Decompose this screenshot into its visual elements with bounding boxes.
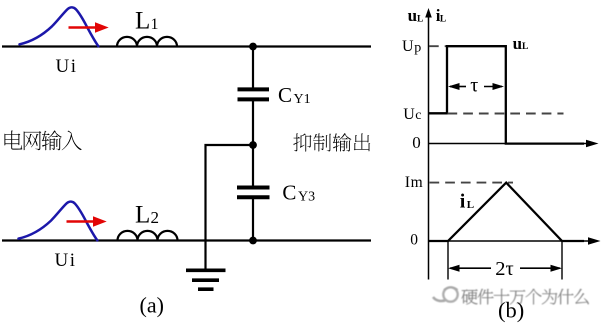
surge pulse waveform on top line (blue)	[20, 7, 99, 46]
svg-text:Y3: Y3	[298, 190, 315, 205]
watermark logo swoosh	[433, 287, 458, 301]
node: middle junction between capacitors	[249, 141, 257, 149]
wire: segment between CY1 and CY3	[252, 101, 254, 186]
ground	[186, 270, 226, 289]
label Im	[405, 174, 423, 191]
dashed line at Im level	[430, 182, 514, 184]
svg-text:u: u	[408, 6, 417, 25]
dashed line at Up level	[429, 45, 447, 47]
svg-text:m: m	[411, 174, 423, 191]
axis: top plot horizontal (0 line) with arrowhead	[429, 140, 599, 148]
axis: bottom plot horizontal (0 line) with arrowhead	[429, 237, 601, 245]
measurement line: right edge of 2tau	[561, 241, 563, 280]
svg-text:L: L	[467, 199, 474, 211]
text: 电网输入 (grid input)	[4, 130, 81, 150]
surge pulse waveform on bottom line (blue)	[19, 202, 98, 241]
label CY3	[282, 180, 315, 204]
svg-text:0: 0	[410, 231, 418, 248]
svg-text:u: u	[513, 34, 522, 53]
svg-text:L: L	[417, 14, 423, 24]
2tau measurement arrow (double-headed)	[448, 265, 562, 272]
svg-text:c: c	[415, 108, 421, 123]
waveform uL rectangular pulse	[429, 46, 585, 143]
capacitor CY3	[237, 188, 270, 198]
svg-text:L: L	[135, 7, 150, 34]
wire: ground branch from middle junction	[206, 145, 254, 270]
red arrow: surge direction (top)	[69, 22, 109, 32]
watermark text 硬件十万个为什么	[462, 289, 589, 305]
label uL (next to pulse)	[513, 34, 529, 53]
svg-text:C: C	[278, 83, 292, 107]
svg-text:2: 2	[151, 208, 160, 227]
svg-text:2τ: 2τ	[495, 258, 514, 280]
measurement line: left edge of 2tau	[447, 241, 449, 280]
svg-text:C: C	[282, 180, 296, 204]
svg-text:0: 0	[412, 133, 421, 152]
svg-text:L: L	[440, 14, 446, 24]
wire: capacitor branch lower segment	[252, 199, 254, 241]
svg-text:U: U	[403, 106, 415, 123]
dashed line at Uc level	[448, 113, 564, 115]
label uL (axis)	[408, 6, 424, 25]
text: 抑制输出 (suppressed output)	[293, 133, 370, 151]
axis: vertical uL/iL axis with arrowhead	[425, 8, 432, 280]
waveform iL triangle	[429, 183, 585, 241]
label iL (axis)	[436, 6, 446, 25]
inductor L2	[118, 231, 178, 241]
label iL (triangle)	[460, 191, 474, 213]
svg-text:(b): (b)	[498, 297, 524, 322]
svg-text:i: i	[460, 191, 466, 213]
wire: bottom line (neutral input)	[2, 239, 371, 241]
label L2	[135, 202, 159, 229]
capacitor CY1	[238, 89, 270, 99]
wire: top line (phase input)	[2, 45, 371, 47]
svg-text:p: p	[414, 41, 421, 56]
svg-text:L: L	[135, 202, 150, 229]
svg-text:Ui: Ui	[55, 250, 77, 271]
label CY1	[278, 83, 311, 107]
svg-text:Y1: Y1	[294, 92, 311, 107]
svg-text:U: U	[402, 38, 414, 55]
inductor L1	[117, 37, 177, 47]
label L1	[135, 7, 159, 34]
red arrow: surge direction (bottom)	[67, 216, 107, 226]
svg-text:L: L	[522, 42, 528, 52]
svg-text:1: 1	[151, 16, 159, 33]
svg-text:τ: τ	[470, 74, 478, 96]
tau measurement arrow (double-headed)	[448, 83, 504, 90]
svg-text:(a): (a)	[140, 293, 164, 318]
label Uc	[403, 106, 421, 123]
svg-text:I: I	[405, 174, 410, 191]
node: top junction	[249, 43, 257, 51]
svg-text:Ui: Ui	[56, 56, 78, 77]
node: bottom junction	[249, 237, 257, 245]
wire: capacitor branch upper segment	[252, 47, 254, 89]
